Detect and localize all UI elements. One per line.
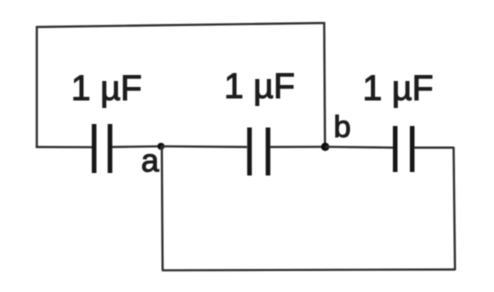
capacitor C3	[395, 126, 412, 172]
wire right vertical to node b	[323, 22, 326, 147]
wire bottom horizontal	[162, 268, 456, 271]
wire C2 to node b	[270, 146, 325, 148]
wire right vertical bottom loop	[454, 147, 455, 270]
wire left vertical	[36, 26, 38, 148]
node b	[321, 143, 329, 151]
capacitor C1	[94, 124, 110, 173]
wire node a to C2	[161, 145, 247, 148]
svg-text:1 µF: 1 µF	[71, 69, 142, 108]
svg-text:1 µF: 1 µF	[224, 67, 295, 106]
wire node a vertical down	[161, 146, 164, 270]
capacitor C2	[250, 128, 269, 176]
wire node b to C3	[325, 146, 393, 149]
wire C1 to node a	[112, 145, 161, 148]
svg-text:a: a	[141, 143, 159, 179]
svg-text:1 µF: 1 µF	[363, 69, 434, 108]
node a	[157, 143, 164, 150]
wire C3 to right corner	[414, 147, 454, 149]
wire left end to C1	[36, 146, 92, 148]
svg-text:b: b	[334, 109, 351, 144]
wire top horizontal	[37, 23, 325, 27]
